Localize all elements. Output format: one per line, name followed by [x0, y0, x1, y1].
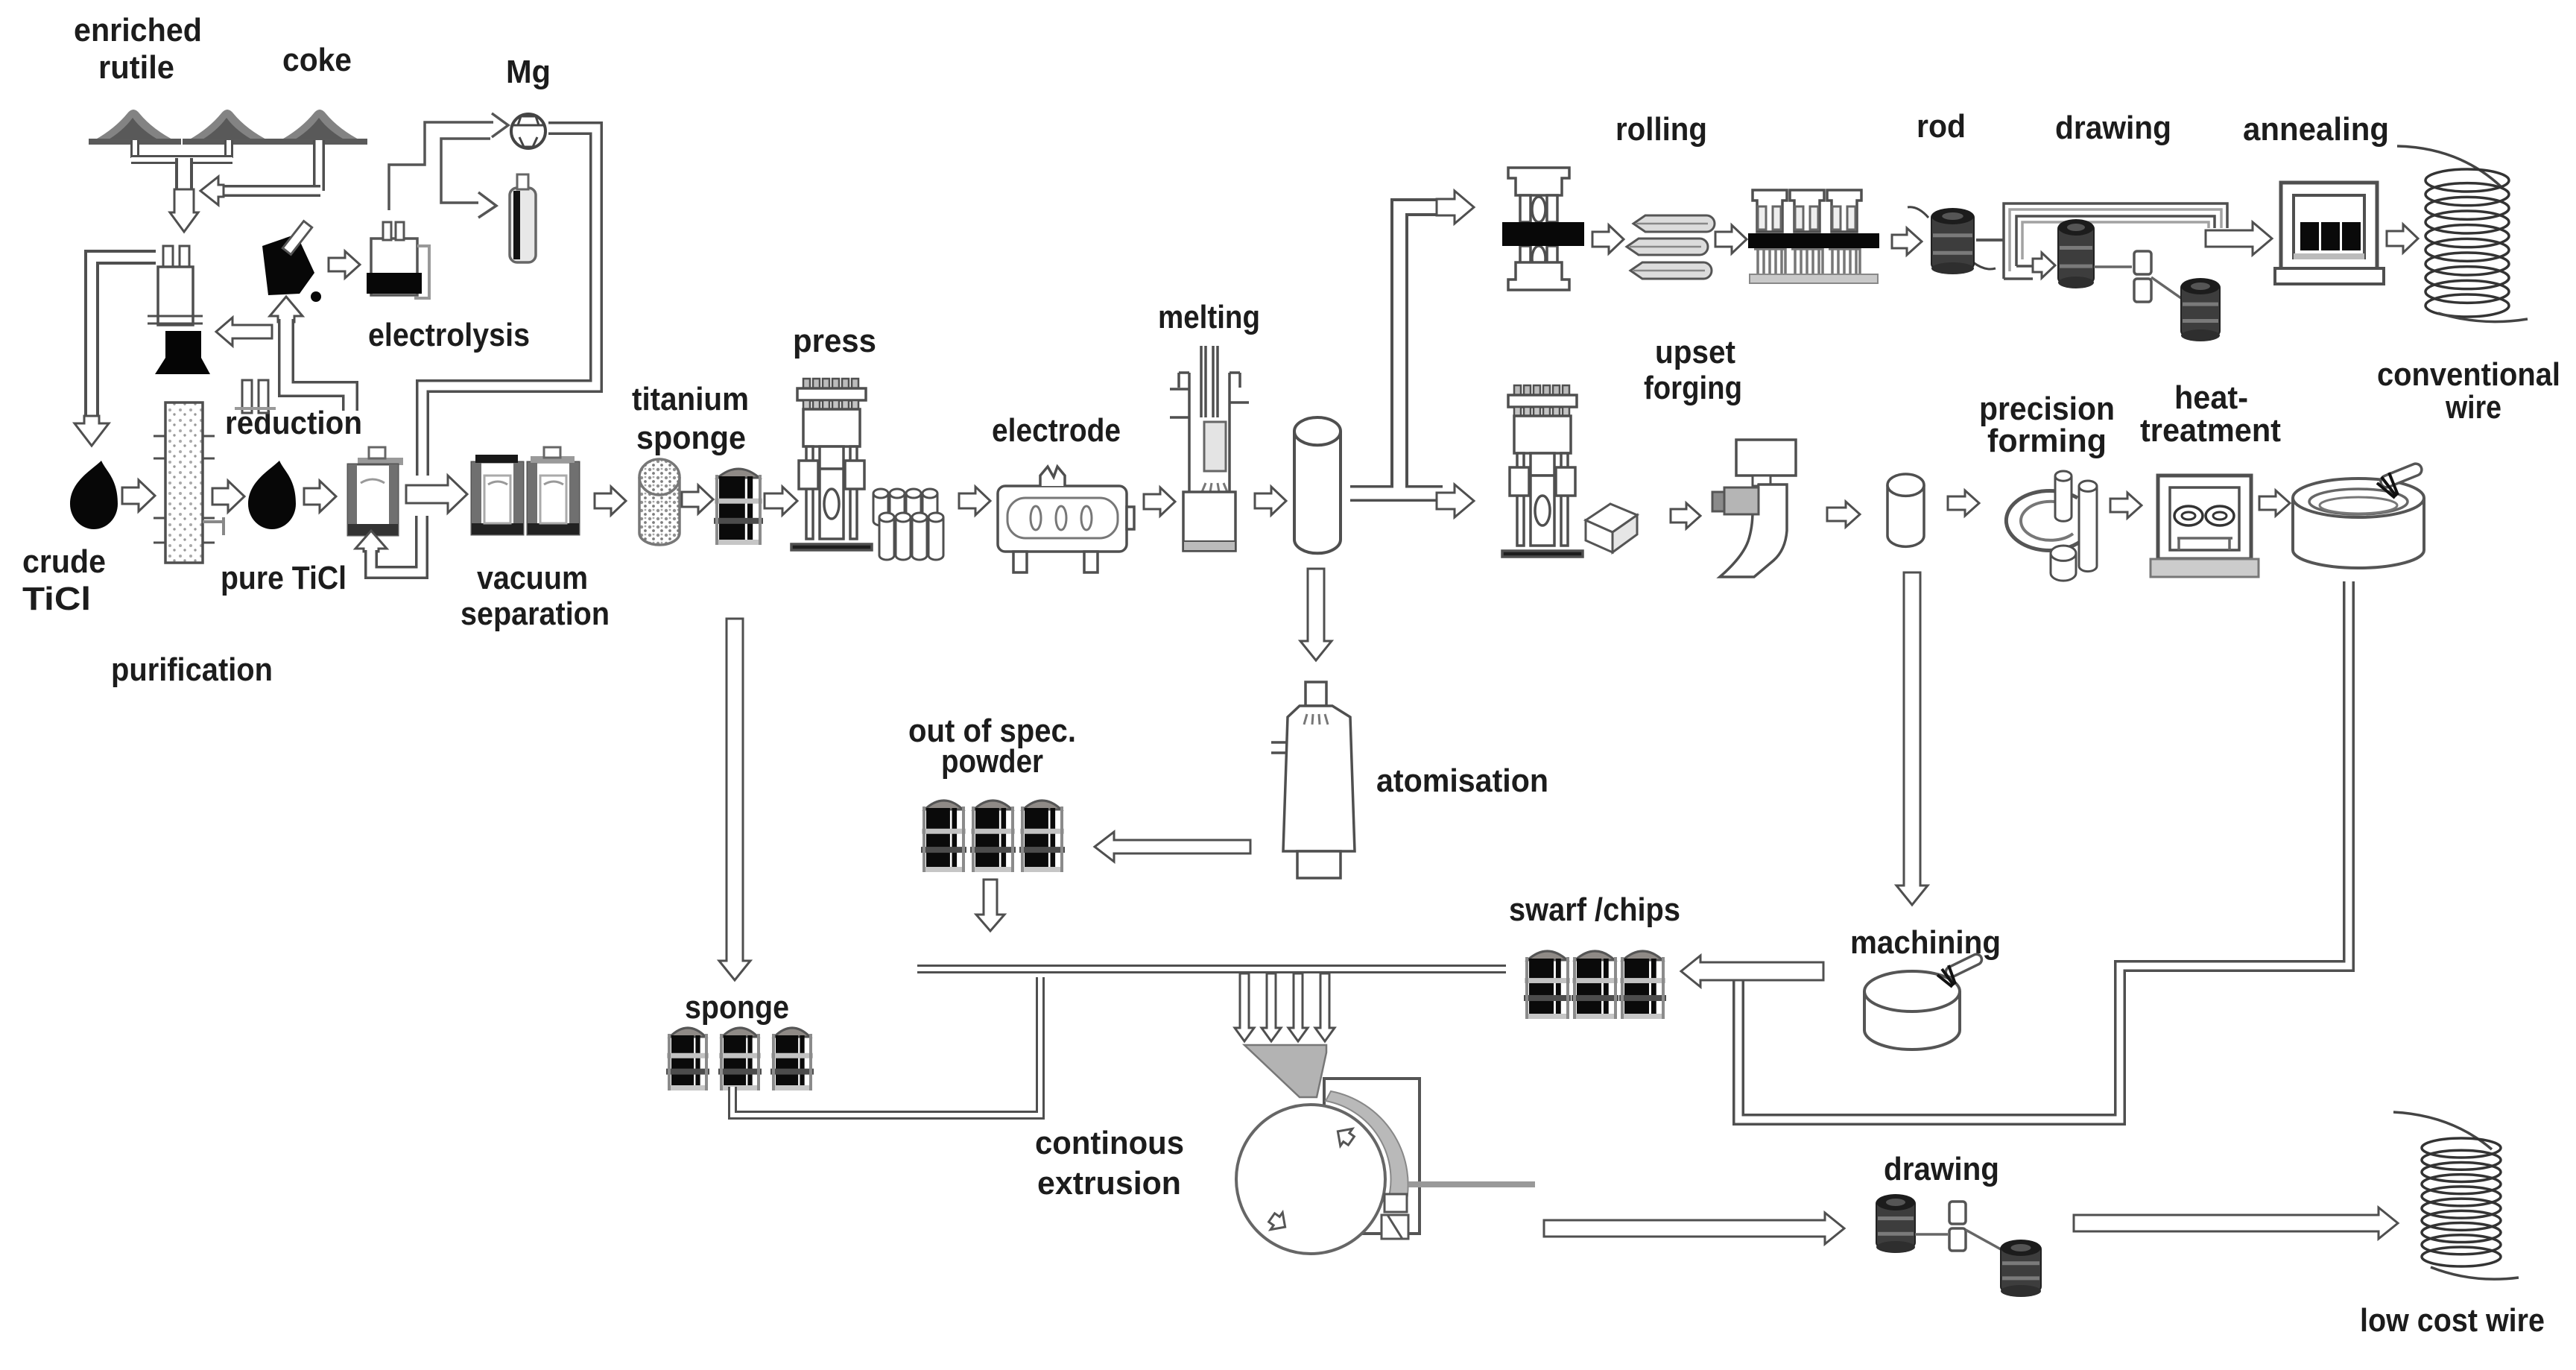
- svg-text:annealing: annealing: [2243, 111, 2389, 148]
- svg-text:extrusion: extrusion: [1037, 1165, 1181, 1202]
- svg-text:rod: rod: [1917, 108, 1966, 145]
- svg-text:drawing: drawing: [2055, 110, 2171, 146]
- svg-text:rutile: rutile: [98, 49, 174, 86]
- svg-text:swarf /chips: swarf /chips: [1509, 891, 1680, 928]
- svg-text:electrolysis: electrolysis: [368, 317, 530, 353]
- svg-text:melting: melting: [1158, 299, 1260, 335]
- svg-text:heat-: heat-: [2174, 379, 2248, 416]
- svg-text:precision: precision: [1979, 391, 2115, 427]
- svg-text:powder: powder: [941, 743, 1043, 780]
- svg-text:TiCl: TiCl: [22, 581, 91, 617]
- svg-text:sponge: sponge: [636, 420, 746, 456]
- svg-text:forging: forging: [1644, 370, 1742, 406]
- svg-text:conventional: conventional: [2377, 356, 2560, 393]
- svg-text:coke: coke: [282, 42, 352, 78]
- svg-text:titanium: titanium: [632, 381, 749, 417]
- svg-text:forming: forming: [1987, 423, 2107, 459]
- svg-text:crude: crude: [22, 543, 106, 580]
- svg-text:purification: purification: [111, 651, 273, 688]
- svg-text:vacuum: vacuum: [477, 560, 588, 596]
- svg-text:separation: separation: [461, 596, 610, 632]
- svg-text:treatment: treatment: [2140, 412, 2281, 449]
- svg-text:upset: upset: [1655, 334, 1735, 370]
- svg-text:sponge: sponge: [685, 989, 789, 1026]
- svg-text:continous: continous: [1035, 1125, 1184, 1161]
- svg-text:low cost wire: low cost wire: [2360, 1302, 2545, 1339]
- svg-text:rolling: rolling: [1615, 111, 1707, 148]
- svg-text:press: press: [793, 323, 876, 359]
- svg-text:wire: wire: [2445, 389, 2501, 426]
- svg-text:Mg: Mg: [506, 54, 551, 90]
- svg-text:pure TiCl: pure TiCl: [221, 560, 346, 596]
- svg-text:atomisation: atomisation: [1376, 763, 1548, 799]
- svg-text:enriched: enriched: [74, 12, 202, 48]
- svg-text:electrode: electrode: [992, 412, 1121, 449]
- svg-text:drawing: drawing: [1884, 1151, 1999, 1187]
